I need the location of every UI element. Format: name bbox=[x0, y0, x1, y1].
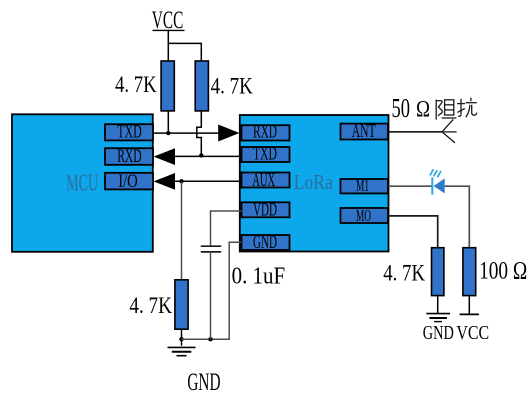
junction ground node bbox=[179, 337, 183, 341]
antenna symbol bbox=[442, 119, 457, 142]
svg-text:MO: MO bbox=[356, 206, 371, 225]
svg-text:4. 7K: 4. 7K bbox=[115, 72, 157, 98]
svg-text:100 Ω: 100 Ω bbox=[479, 258, 527, 285]
svg-text:M1: M1 bbox=[356, 176, 369, 195]
svg-text:AUX: AUX bbox=[252, 171, 275, 191]
wire M0 down to R4 bbox=[389, 216, 438, 248]
svg-text:ANT: ANT bbox=[352, 122, 376, 142]
wire VCC split horizontal bbox=[168, 42, 201, 44]
label impedance hanzi 抗 bbox=[457, 98, 477, 118]
svg-text:4. 7K: 4. 7K bbox=[383, 261, 425, 287]
net VCC underline bbox=[153, 29, 185, 31]
wire VCC stem bbox=[167, 30, 169, 43]
svg-text:4. 7K: 4. 7K bbox=[129, 293, 172, 319]
wire to R2 top bbox=[200, 43, 202, 62]
svg-text:50: 50 bbox=[392, 93, 411, 123]
arrow into RXD(MCU) bbox=[154, 148, 175, 165]
wire TXD(LoRa) to arrow bbox=[174, 155, 242, 157]
svg-text:GND: GND bbox=[187, 367, 220, 396]
pin ANT (LoRa) bbox=[341, 122, 389, 142]
junction TXD/R1 bbox=[166, 131, 170, 135]
ground symbol (left) bbox=[168, 347, 196, 355]
svg-text:TXD: TXD bbox=[117, 122, 142, 143]
junction AUX/R3 bbox=[179, 179, 183, 183]
VCC bar (bottom right) bbox=[460, 313, 479, 315]
wire R4 to ground bbox=[437, 296, 439, 314]
junction cap/ground rail bbox=[208, 337, 212, 341]
pin AUX (LoRa) bbox=[242, 171, 290, 191]
resistor R4 (4.7K on M0) bbox=[432, 248, 444, 296]
capacitor C1 0.1uF bbox=[201, 211, 221, 339]
svg-text:RXD: RXD bbox=[253, 123, 277, 143]
wire ground rail horizontal bbox=[182, 338, 230, 340]
pin M0 (LoRa) bbox=[341, 206, 389, 225]
resistor R3 (4.7K to GND) bbox=[175, 280, 188, 329]
label impedance hanzi 阻 bbox=[436, 100, 456, 120]
svg-text:LoRa: LoRa bbox=[294, 170, 334, 194]
junction RXD/R2 bbox=[199, 153, 203, 157]
svg-text:RXD: RXD bbox=[117, 146, 142, 167]
wire R2 bottom jog bbox=[197, 111, 202, 155]
svg-text:VCC: VCC bbox=[456, 322, 489, 344]
wire R5 to VCC bar bbox=[468, 296, 470, 315]
pin TXD (MCU) bbox=[105, 122, 153, 143]
pin I/O (MCU) bbox=[105, 171, 153, 192]
wire R3 bottom bbox=[181, 329, 183, 346]
wire ANT out bbox=[389, 131, 443, 133]
wire GND(LoRa) down to rail bbox=[229, 242, 241, 340]
svg-text:4. 7K: 4. 7K bbox=[211, 74, 253, 100]
svg-text:GND: GND bbox=[253, 233, 277, 253]
resistor R5 (100 ohm on M1) bbox=[463, 248, 476, 296]
wire AUX(LoRa) to arrow bbox=[174, 180, 242, 182]
resistor R1 (4.7K pull-up left) bbox=[161, 61, 174, 111]
pin TXD (LoRa) bbox=[242, 144, 290, 164]
arrow into RXD(LoRa) bbox=[218, 125, 239, 142]
svg-text:0. 1uF: 0. 1uF bbox=[232, 264, 286, 290]
wire LED to R5 bbox=[445, 186, 470, 248]
LoRa U2 block bbox=[240, 115, 389, 252]
wire VDD to cap bbox=[210, 210, 242, 212]
wire R1 bottom to TXD net bbox=[167, 111, 169, 133]
pin RXD (MCU) bbox=[105, 146, 153, 167]
LED D1 bbox=[430, 169, 445, 194]
wire TXD(MCU) to arrow bbox=[153, 132, 219, 134]
pin RXD (LoRa) bbox=[242, 123, 290, 143]
pin GND (LoRa) bbox=[242, 233, 290, 253]
pin M1 (LoRa) bbox=[341, 176, 389, 195]
MCU U1 block bbox=[12, 114, 153, 252]
wire to R1 top bbox=[167, 43, 169, 62]
svg-text:TXD: TXD bbox=[253, 144, 277, 164]
ground symbol (right) bbox=[426, 314, 450, 322]
svg-text:I/O: I/O bbox=[118, 171, 138, 192]
svg-text:Ω: Ω bbox=[416, 96, 430, 121]
wire down to R3 bbox=[181, 181, 183, 280]
wire M1 to LED bbox=[389, 185, 434, 187]
svg-text:VDD: VDD bbox=[253, 200, 277, 220]
resistor R2 (4.7K pull-up right) bbox=[195, 61, 208, 111]
arrow into I/O(MCU) bbox=[154, 173, 175, 190]
svg-text:GND: GND bbox=[423, 322, 454, 344]
pin VDD (LoRa) bbox=[242, 200, 290, 220]
svg-text:MCU: MCU bbox=[66, 169, 98, 196]
